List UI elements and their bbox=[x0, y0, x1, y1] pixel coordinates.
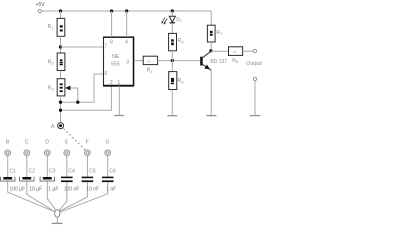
wire R8 to output bbox=[243, 50, 254, 52]
svg-text:BD 137: BD 137 bbox=[210, 59, 227, 65]
capacitor C3 bbox=[40, 168, 56, 181]
svg-text:7: 7 bbox=[105, 44, 108, 50]
svg-text:Output: Output bbox=[246, 61, 262, 67]
dashed selector line A to F bbox=[63, 128, 85, 150]
wire wiper to rail bbox=[70, 88, 78, 102]
svg-text:555: 555 bbox=[111, 62, 120, 68]
IC U1 NE555 bbox=[104, 37, 134, 86]
common node bbox=[55, 210, 60, 218]
wire G to C6 bbox=[107, 156, 109, 177]
resistor R4 bbox=[143, 56, 157, 74]
junction dot base/R5/R6 bbox=[171, 59, 174, 62]
svg-text:C: C bbox=[25, 140, 29, 146]
wire R7 to collector junction bbox=[210, 42, 212, 51]
svg-text:R2: R2 bbox=[48, 59, 55, 65]
resistor R8 bbox=[229, 47, 243, 64]
wire junction to R8 bbox=[211, 50, 229, 52]
wire pin 1 to ground bbox=[118, 86, 120, 115]
svg-text:F: F bbox=[86, 140, 89, 146]
svg-text:R4: R4 bbox=[147, 68, 154, 74]
junction dot R1/R2/pin7 bbox=[59, 45, 62, 48]
svg-text:4: 4 bbox=[125, 40, 128, 46]
capacitor C2 bbox=[20, 168, 36, 181]
wire R6 to ground bbox=[171, 90, 173, 115]
svg-text:C6: C6 bbox=[109, 168, 116, 174]
wire B to C1 bbox=[7, 156, 9, 177]
svg-text:100 µF: 100 µF bbox=[10, 187, 26, 193]
wire output- to ground bbox=[254, 81, 256, 115]
svg-text:8: 8 bbox=[110, 40, 113, 46]
transistor Q1 BD 137 bbox=[200, 51, 227, 70]
junction dot R3/rail bbox=[59, 101, 62, 104]
wire D to C3 bbox=[46, 156, 48, 177]
svg-text:A: A bbox=[51, 124, 55, 130]
svg-text:R7: R7 bbox=[216, 30, 223, 36]
junction dot rail/R1 bbox=[59, 9, 62, 12]
wire R1 to R2 bbox=[60, 36, 62, 53]
output terminal + bbox=[253, 49, 256, 52]
wire R2 to R3 bbox=[60, 71, 62, 79]
wire F to C5 bbox=[86, 156, 88, 177]
junction dot collector bbox=[209, 49, 212, 52]
svg-text:E: E bbox=[65, 140, 69, 146]
svg-text:1 µF: 1 µF bbox=[48, 187, 58, 193]
svg-text:R8: R8 bbox=[232, 58, 239, 64]
ground R6 bbox=[167, 115, 177, 117]
svg-text:B: B bbox=[6, 140, 10, 146]
output terminal - bbox=[253, 77, 256, 80]
svg-text:D1: D1 bbox=[176, 17, 182, 23]
terminal E bbox=[64, 140, 70, 156]
wire C3 to node bbox=[47, 181, 56, 211]
svg-text:NE: NE bbox=[112, 54, 120, 60]
svg-text:xx: xx bbox=[147, 59, 151, 63]
svg-text:C4: C4 bbox=[68, 168, 75, 174]
potentiometer R3 bbox=[48, 79, 65, 96]
terminal G bbox=[105, 140, 111, 156]
svg-text:100 nF: 100 nF bbox=[64, 187, 80, 193]
svg-text:R1: R1 bbox=[48, 24, 55, 30]
wire C2 to node bbox=[27, 181, 56, 212]
ground emitter bbox=[206, 115, 216, 117]
wire C4 to node bbox=[58, 182, 67, 211]
wire rail to pin 6 bbox=[61, 74, 104, 102]
svg-text:R3: R3 bbox=[48, 85, 55, 91]
wire rail corner down to R7 bbox=[210, 11, 212, 25]
wire junction to R6 bbox=[171, 61, 173, 72]
svg-text:C3: C3 bbox=[49, 168, 56, 174]
wire R3 bottom down to node A bbox=[60, 96, 62, 123]
svg-text:R5: R5 bbox=[178, 38, 185, 44]
junction dot rail/pin4 bbox=[125, 9, 128, 12]
terminal F bbox=[85, 140, 91, 156]
ground pin 1 bbox=[114, 115, 124, 117]
svg-text:+5V: +5V bbox=[36, 2, 46, 8]
svg-text:G: G bbox=[105, 140, 109, 146]
junction dot rail pin2 bbox=[59, 109, 62, 112]
svg-text:C5: C5 bbox=[89, 168, 96, 174]
wire pin 3 to R4 bbox=[134, 60, 143, 62]
wire R5 to junction bbox=[171, 51, 173, 61]
wire emitter to ground bbox=[210, 70, 212, 115]
wire pin 8 bbox=[111, 11, 113, 37]
ground output bbox=[250, 115, 260, 117]
svg-text:R6: R6 bbox=[178, 78, 185, 84]
wire pin 4 bbox=[126, 11, 128, 37]
wire +5V rail bbox=[42, 10, 212, 12]
wire rail to pin 2 bbox=[61, 86, 112, 110]
resistor R7 bbox=[207, 25, 223, 42]
svg-text:xx: xx bbox=[233, 50, 237, 54]
LED D1 bbox=[161, 11, 182, 25]
svg-text:10 µF: 10 µF bbox=[29, 187, 42, 193]
capacitor C5 bbox=[82, 168, 96, 182]
svg-text:2: 2 bbox=[110, 80, 113, 86]
wire C1 to node bbox=[8, 181, 56, 212]
svg-text:6: 6 bbox=[104, 71, 107, 77]
resistor R1 bbox=[48, 18, 65, 36]
svg-text:1 nF: 1 nF bbox=[106, 187, 116, 193]
wire to pin 7 bbox=[61, 46, 104, 48]
terminal B bbox=[5, 140, 11, 156]
node A bbox=[51, 123, 64, 130]
terminal C bbox=[24, 140, 30, 156]
ground common node bbox=[52, 222, 63, 224]
junction dot rail/pin8 bbox=[110, 9, 113, 12]
terminal D bbox=[44, 140, 50, 156]
wire E to C4 bbox=[66, 156, 68, 177]
capacitor C6 bbox=[102, 168, 116, 182]
wire C6 to node bbox=[60, 182, 108, 212]
+5V terminal bbox=[36, 2, 46, 13]
svg-text:D: D bbox=[45, 140, 49, 146]
wire rail to R1 bbox=[60, 11, 62, 18]
junction dot rail/D1 bbox=[171, 9, 174, 12]
capacitor C1 bbox=[1, 168, 17, 181]
junction dot wiper/rail bbox=[76, 101, 79, 104]
wire C to C2 bbox=[26, 156, 28, 177]
wire C5 to node bbox=[59, 182, 87, 211]
resistor R5 bbox=[169, 33, 185, 50]
R3 wiper arrow bbox=[65, 86, 70, 91]
svg-text:1: 1 bbox=[117, 80, 120, 86]
wire R4 to base bbox=[158, 60, 201, 62]
resistor R2 bbox=[48, 53, 65, 71]
svg-text:C1: C1 bbox=[9, 168, 16, 174]
svg-text:3: 3 bbox=[126, 59, 129, 65]
wire D1 to R5 bbox=[171, 23, 173, 33]
capacitor C4 bbox=[61, 168, 75, 182]
svg-text:10 nF: 10 nF bbox=[86, 187, 99, 193]
resistor R6 bbox=[169, 72, 185, 90]
wire node to ground bbox=[56, 217, 58, 223]
svg-text:C2: C2 bbox=[28, 168, 35, 174]
